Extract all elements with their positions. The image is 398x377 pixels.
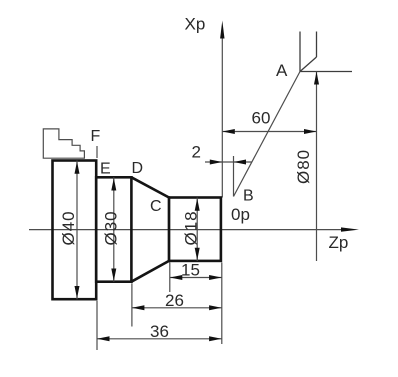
- svg-text:26: 26: [165, 291, 184, 310]
- Zp centerline axis: [29, 227, 359, 231]
- svg-text:Ø40: Ø40: [59, 210, 78, 245]
- svg-text:C: C: [150, 198, 162, 215]
- part: cone D-C top edge: [131, 177, 169, 197]
- dimension 15: [170, 275, 222, 280]
- part: junction line C: [168, 196, 170, 262]
- extension line for 15 at C: [169, 263, 171, 293]
- tool edge line at B: [233, 156, 235, 197]
- svg-text:36: 36: [150, 322, 169, 341]
- dimension Ø18: [195, 198, 200, 261]
- svg-text:15: 15: [181, 261, 200, 280]
- part: Ø18 cylinder: [169, 198, 221, 261]
- dimension Ø40: [75, 161, 80, 300]
- dimension 2: [205, 160, 252, 165]
- part: Ø30 cylinder: [96, 177, 131, 281]
- dimension Ø80: [314, 72, 319, 262]
- svg-text:E: E: [100, 161, 111, 178]
- dimension 36: [97, 336, 222, 341]
- extension line for 36: [96, 301, 98, 350]
- svg-text:Ø80: Ø80: [294, 149, 313, 184]
- svg-text:2: 2: [192, 143, 201, 162]
- part: cone bottom edge: [131, 261, 169, 282]
- svg-text:Ø18: Ø18: [182, 210, 201, 245]
- chuck jaw: [43, 129, 84, 158]
- dimension 60: [222, 129, 316, 134]
- F tick: [96, 146, 98, 158]
- svg-text:Xp: Xp: [185, 15, 206, 34]
- extension line for 26 at D: [131, 283, 133, 326]
- svg-text:0p: 0p: [231, 205, 250, 224]
- Xp axis: [220, 21, 224, 198]
- dimension Ø30: [111, 177, 116, 281]
- tool at A: [300, 32, 352, 72]
- dimension 26: [132, 305, 222, 310]
- leader A to B: [234, 72, 301, 197]
- right extension line below part: [221, 263, 223, 345]
- svg-text:B: B: [243, 188, 254, 205]
- svg-text:D: D: [132, 160, 144, 177]
- svg-text:A: A: [276, 61, 288, 80]
- svg-text:60: 60: [252, 109, 271, 128]
- svg-text:Ø30: Ø30: [102, 210, 121, 245]
- svg-text:Zp: Zp: [329, 233, 349, 252]
- svg-text:F: F: [91, 128, 101, 145]
- part: Ø40 cylinder: [53, 161, 97, 300]
